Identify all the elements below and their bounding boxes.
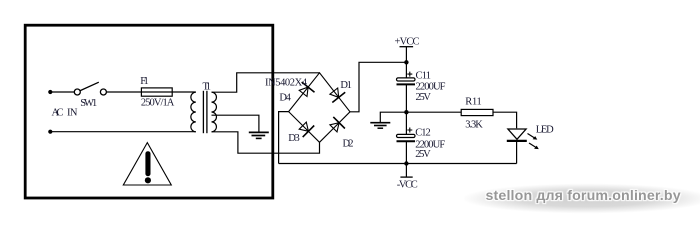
svg-text:-VCC: -VCC xyxy=(397,180,418,191)
svg-text:C12: C12 xyxy=(415,128,431,139)
svg-text:SW1: SW1 xyxy=(80,98,97,109)
svg-text:IN: IN xyxy=(67,108,78,119)
svg-text:+VCC: +VCC xyxy=(395,36,420,47)
svg-text:AC: AC xyxy=(52,108,64,119)
svg-text:R11: R11 xyxy=(465,96,482,107)
svg-text:C11: C11 xyxy=(416,71,432,82)
svg-text:250V/1A: 250V/1A xyxy=(141,98,175,109)
svg-text:D3: D3 xyxy=(288,133,300,144)
svg-text:D4: D4 xyxy=(279,92,291,103)
svg-text:D1: D1 xyxy=(340,80,352,91)
svg-text:IN5402X4: IN5402X4 xyxy=(265,77,308,88)
svg-text:LED: LED xyxy=(536,125,554,136)
svg-text:3.3K: 3.3K xyxy=(465,120,483,131)
svg-text:T1: T1 xyxy=(203,82,212,93)
svg-text:D2: D2 xyxy=(343,138,354,149)
svg-text:2200UF: 2200UF xyxy=(416,82,446,93)
svg-text:25V: 25V xyxy=(416,92,432,103)
svg-text:F1: F1 xyxy=(140,76,149,87)
svg-text:25V: 25V xyxy=(415,149,431,160)
